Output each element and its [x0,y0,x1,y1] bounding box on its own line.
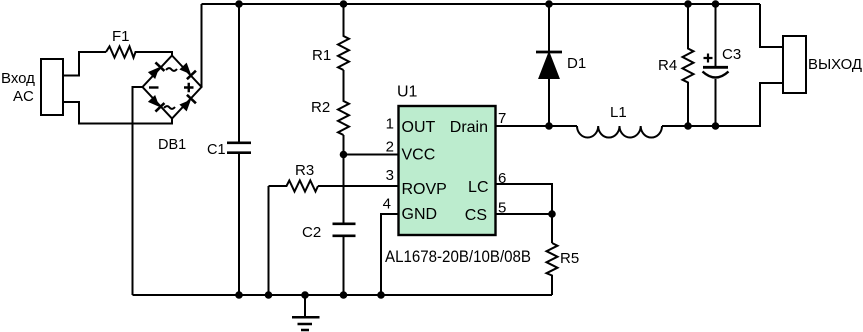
node dot rail R1 [340,0,348,8]
node dot CS junction [548,210,556,218]
svg-text:OUT: OUT [402,119,436,136]
svg-text:U1: U1 [397,84,418,101]
svg-text:R4: R4 [658,57,677,74]
wire Drain pin 7 [496,125,578,127]
node dot out R4 [684,122,692,130]
svg-text:Вход: Вход [1,70,35,87]
diode DB1-a top-left [147,61,165,79]
svg-text:C1: C1 [207,142,226,158]
resistor R5 [547,243,558,295]
svg-text:AC: AC [13,88,34,105]
wire R2 to C2 [343,135,345,224]
capacitor C1 [238,4,240,295]
svg-text:AL1678-20В/10В/08В: AL1678-20В/10В/08В [385,247,531,266]
wire input bottom lead [63,102,172,124]
wire GND pin 4 [381,214,399,295]
svg-text:ROVP: ROVP [402,181,447,198]
svg-text:F1: F1 [112,28,130,45]
svg-text:ВЫХОД: ВЫХОД [808,57,862,73]
node dot rail R3 [265,291,273,299]
svg-text:4: 4 [383,196,391,213]
diode DB1-d bottom-right [179,94,197,112]
svg-text:Drain: Drain [450,119,488,136]
svg-text:R5: R5 [560,250,579,267]
node dot rail C3 [712,0,720,8]
fuse F1 [106,46,172,57]
bridge polarity marks [149,54,713,109]
op-amp U1 body AL1678 [399,106,496,235]
wire R3 left leg to bottom rail [268,186,270,295]
diode D1 [548,4,550,52]
svg-text:6: 6 [498,170,506,187]
wire CS pin 5 [496,213,553,215]
mark plus C3 [704,54,713,63]
node dot rail C1 bottom [235,291,243,299]
wire bridge plus to rail [201,4,203,87]
resistor R1 [338,4,349,70]
capacitor C2 [333,224,356,236]
mark tilde top [166,68,177,71]
svg-text:5: 5 [498,200,506,217]
connector J-out (ВЫХОД) [783,36,806,93]
wire bridge minus to bottom rail [133,87,143,295]
wire ROVP pin 3 [318,185,399,187]
svg-text:VCC: VCC [402,147,436,164]
node dot rail C2 [340,291,348,299]
node dot rail C1 [235,0,243,8]
diode DB1-b top-right [179,62,197,80]
mark tilde bottom [164,106,175,109]
wire input top lead [63,52,106,76]
node dot rail R4 [684,0,692,8]
svg-text:DB1: DB1 [158,137,186,153]
svg-text:7: 7 [498,110,506,127]
connector J-in (Вход AC) [41,59,63,115]
resistor R4 [683,4,694,126]
svg-text:1: 1 [386,116,394,133]
inductor L1 [577,126,662,138]
diode DB1-c bottom-left [147,94,165,112]
mark minus [149,86,159,88]
svg-text:D1: D1 [567,55,586,72]
svg-text:R2: R2 [311,99,330,116]
svg-text:GND: GND [402,206,438,223]
capacitor C3 polarized [715,4,717,67]
resistor R3 [269,181,319,192]
ground symbol [304,295,306,317]
resistor R2 [338,70,349,135]
svg-text:CS: CS [465,207,487,224]
wire top rail [202,3,761,5]
bridge rectifier DB1 diamond [143,56,202,119]
svg-text:C3: C3 [722,46,741,63]
node dot out C3 [712,122,720,130]
node dot rail ground [301,291,309,299]
wire rail to output connector top lead [760,4,783,47]
svg-text:R1: R1 [312,47,331,64]
node dot VCC junction [340,151,348,159]
wire L1 to output [662,83,783,126]
svg-text:L1: L1 [610,104,627,121]
svg-text:R3: R3 [295,162,314,179]
svg-text:3: 3 [386,167,394,184]
wire LC pin 6 [496,184,553,243]
node dot rail D1 [545,0,553,8]
mark plus [184,83,194,93]
node dot rail GND pin [377,291,385,299]
node dot drain D1 [545,122,553,130]
svg-text:2: 2 [386,139,394,156]
wire VCC pin 2 [344,154,399,156]
svg-text:LC: LC [468,179,488,196]
svg-text:C2: C2 [302,224,321,241]
wire bottom ground rail [133,294,553,296]
